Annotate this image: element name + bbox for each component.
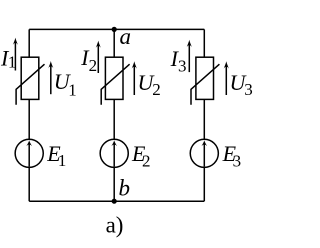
wire: branch1 middle segment [28,99,30,139]
source E1 [15,139,43,167]
svg-text:3: 3 [244,80,253,99]
wire: top bus from branch1 to branch3 [29,28,204,30]
label I1 [0,45,16,71]
wire: branch3 top segment [203,29,205,57]
label I3 [170,46,187,76]
label node a [120,24,132,49]
label node b [119,176,131,201]
source E2 [100,139,128,167]
label U2 [138,70,161,99]
voltage arrow U2 [132,61,137,95]
wire: branch3 middle segment [203,99,205,139]
wire: branch1 bottom segment [28,167,30,201]
wire: branch3 bottom segment [203,167,205,201]
resistor R3 (nonlinear) [191,57,219,104]
svg-text:a: a [120,24,132,49]
label U1 [54,69,77,100]
svg-text:a): a) [106,213,124,238]
voltage arrow U3 [224,61,229,95]
wire: bottom bus from branch1 to branch3 [29,200,204,202]
node a [112,27,117,32]
label I2 [80,45,97,75]
current arrow I1 [13,38,18,71]
svg-text:b: b [119,176,131,201]
caption a) [106,213,124,238]
current arrow I3 [187,40,192,72]
resistor R2 (nonlinear) [101,57,129,104]
voltage arrow U1 [48,61,53,94]
svg-text:1: 1 [68,80,77,99]
svg-text:3: 3 [178,57,187,76]
label E2 [131,141,151,171]
wire: branch2 top segment [113,29,115,57]
current arrow I2 [96,41,101,73]
wire: branch1 top segment [28,29,30,57]
wire: branch2 middle segment [113,99,115,139]
svg-text:3: 3 [233,152,242,171]
label E3 [222,141,242,171]
svg-text:2: 2 [142,152,151,171]
source E3 [190,139,218,167]
label E1 [46,141,66,170]
svg-text:2: 2 [89,56,98,75]
label U3 [230,70,253,99]
wire: branch2 bottom segment [113,167,115,201]
resistor R1 (nonlinear) [16,57,44,104]
svg-text:1: 1 [8,53,17,72]
node b [112,199,117,204]
svg-text:1: 1 [58,151,67,170]
svg-text:2: 2 [152,80,161,99]
